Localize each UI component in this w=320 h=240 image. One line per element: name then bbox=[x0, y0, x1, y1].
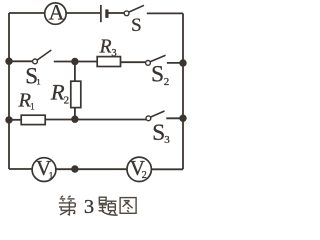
node row3 left bbox=[5, 116, 12, 123]
svg-text:2: 2 bbox=[164, 76, 170, 88]
svg-text:2: 2 bbox=[142, 170, 147, 181]
switch S bbox=[124, 5, 144, 36]
wire bottom-left corner to V1 bbox=[9, 168, 32, 170]
svg-text:R: R bbox=[99, 36, 112, 57]
ammeter A bbox=[45, 0, 66, 25]
wire V1 to V2 bbox=[56, 168, 127, 170]
node row2 left bbox=[5, 58, 12, 65]
svg-text:S: S bbox=[151, 62, 164, 88]
resistor R2 bbox=[50, 80, 81, 108]
wire R1 to S3 bbox=[45, 119, 146, 121]
svg-text:A: A bbox=[48, 0, 64, 25]
switch S2 bbox=[146, 55, 170, 88]
node bottom (mid column) bbox=[71, 165, 78, 172]
node C (R2 bottom junction) bbox=[71, 116, 78, 123]
caption character 图 bbox=[120, 198, 136, 214]
voltmeter V1 bbox=[32, 156, 56, 182]
svg-text:2: 2 bbox=[64, 94, 70, 106]
wire ammeter to battery bbox=[66, 12, 100, 14]
wire right vertical bbox=[182, 13, 184, 169]
resistor R3 bbox=[97, 36, 120, 66]
wire S2 to right wire bbox=[167, 62, 183, 64]
svg-text:1: 1 bbox=[30, 101, 35, 111]
svg-text:3: 3 bbox=[164, 134, 170, 146]
wire row3 left to R1 bbox=[9, 119, 21, 121]
battery bbox=[101, 5, 107, 22]
wire row2 to S1 bbox=[9, 60, 33, 62]
wire S1 to node B bbox=[54, 61, 98, 63]
node B (R2 top junction) bbox=[71, 58, 78, 65]
caption character 第 bbox=[59, 196, 75, 215]
wire R3 to S2 bbox=[121, 61, 146, 63]
wire S3 to right wire bbox=[166, 117, 183, 119]
svg-text:3: 3 bbox=[84, 196, 94, 218]
svg-text:3: 3 bbox=[111, 48, 116, 59]
svg-text:1: 1 bbox=[36, 76, 40, 86]
svg-text:R: R bbox=[50, 80, 65, 105]
wire left vertical bbox=[8, 13, 10, 169]
voltmeter V2 bbox=[127, 156, 151, 182]
svg-text:1: 1 bbox=[49, 171, 54, 181]
caption character 题 bbox=[99, 197, 118, 215]
caption digit 3 bbox=[84, 196, 94, 218]
switch S3 bbox=[146, 111, 170, 146]
wire battery to switch S bbox=[109, 12, 125, 14]
wire node B down to R2 bbox=[74, 62, 76, 82]
svg-text:S: S bbox=[131, 15, 142, 36]
wire R2 down to node C bbox=[74, 108, 76, 120]
resistor R1 bbox=[18, 90, 46, 125]
node row2 right bbox=[179, 59, 186, 66]
wire top-left to ammeter bbox=[9, 12, 45, 14]
wire switch S to top-right corner bbox=[147, 12, 183, 14]
switch S1 bbox=[25, 50, 51, 89]
node row3 right bbox=[179, 115, 186, 122]
wire V2 to bottom-right corner bbox=[152, 168, 184, 170]
